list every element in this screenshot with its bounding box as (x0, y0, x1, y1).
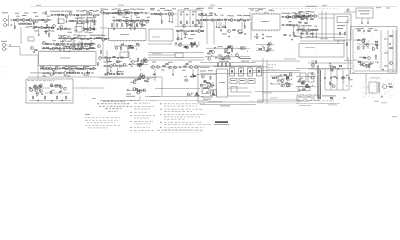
transistor Q109 (201, 75, 204, 78)
resistor R195 (51, 90, 52, 94)
value label (124, 8, 127, 11)
value label (77, 34, 80, 37)
value label (70, 40, 73, 43)
resistor R216 (272, 78, 274, 79)
value label (176, 38, 181, 41)
wire (86, 70, 88, 71)
resistor R79 (288, 16, 290, 17)
resistor R145 (77, 72, 79, 73)
resistor R149 (105, 57, 107, 58)
capacitor C61 (34, 51, 35, 53)
capacitor C41 (244, 33, 245, 35)
label (240, 57, 251, 60)
capacitor C81 (268, 48, 269, 50)
value label (141, 75, 145, 78)
capacitor C24 (136, 25, 137, 27)
transistor Q100 (140, 73, 143, 76)
resistor R5 (19, 23, 21, 24)
transistor Q86 (267, 44, 270, 47)
value label (35, 15, 38, 18)
transistor Q51 (42, 41, 45, 44)
value label (247, 14, 251, 17)
wire (100, 100, 140, 102)
label (370, 76, 380, 79)
transistor Q118 (332, 85, 335, 88)
transistor Q97 (133, 81, 136, 84)
diode CR5 (90, 37, 91, 38)
transistor Q38 (299, 15, 302, 18)
note line (164, 123, 194, 126)
resistor R160 (138, 58, 139, 62)
diode CR42 (306, 87, 307, 88)
wire (77, 16, 79, 21)
solder speck (201, 90, 204, 93)
resistor R92 (299, 22, 301, 23)
value label (308, 10, 311, 13)
transistor Q98 (139, 76, 142, 79)
value label (25, 26, 28, 29)
solder speck (39, 88, 40, 91)
capacitor C49 (306, 19, 307, 21)
value label (126, 95, 135, 98)
diode CR44 (335, 76, 336, 77)
resistor R185 (229, 63, 230, 67)
wire (8, 15, 10, 26)
transistor Q90 (35, 89, 38, 92)
capacitor C43 (262, 34, 263, 36)
resistor R109 (368, 63, 369, 67)
value label (57, 10, 60, 13)
transistor Q70 (287, 16, 290, 19)
solder speck (210, 82, 211, 85)
resistor R218 (286, 78, 288, 79)
solder speck (130, 60, 131, 63)
capacitor C100 (342, 77, 343, 79)
resistor R83 (293, 32, 294, 36)
resistor R175 (228, 55, 229, 59)
resistor R122 (92, 43, 94, 44)
title block line (97, 102, 130, 105)
note text line (268, 66, 273, 69)
net label (270, 96, 278, 99)
resistor R220 (287, 77, 289, 78)
capacitor C35 (216, 19, 217, 21)
transistor Q34 (228, 30, 231, 33)
resistor R1 (14, 20, 16, 21)
value label (305, 12, 309, 15)
wire (200, 21, 202, 26)
solder speck (57, 85, 58, 88)
value label (40, 65, 44, 68)
value label (240, 14, 242, 17)
value label (364, 43, 367, 46)
value label (153, 76, 157, 79)
wire (130, 22, 132, 28)
value label (61, 10, 64, 13)
solder speck (282, 80, 283, 83)
resistor R141 (58, 73, 60, 74)
transistor Q111 (281, 80, 284, 83)
value label (311, 11, 315, 14)
switch S3 (248, 68, 253, 76)
resistor R183 (221, 63, 222, 67)
value label (74, 65, 77, 68)
wire (174, 44, 200, 46)
resistor R192 (318, 65, 319, 69)
solder speck (35, 84, 38, 87)
transistor Q81 (190, 66, 193, 69)
caption OPTION (30, 71, 44, 74)
value label (206, 14, 210, 17)
caption (200, 66, 210, 69)
ground (90, 28, 92, 30)
value label (306, 35, 311, 38)
note line (164, 102, 205, 105)
resistor R184 (225, 63, 226, 67)
value label (359, 56, 363, 59)
solder speck (142, 88, 145, 91)
solder speck (375, 43, 377, 46)
transistor Q29 (183, 25, 186, 28)
wire (148, 57, 204, 59)
resistor R113 (369, 64, 370, 68)
resistor R179 (209, 51, 211, 52)
note number (130, 105, 132, 108)
wire (300, 31, 302, 37)
zone label (322, 4, 327, 7)
zone label (118, 4, 124, 7)
value label (86, 16, 90, 19)
ground (38, 34, 40, 36)
ref labels (208, 7, 213, 10)
ground (93, 29, 95, 31)
resistor R177 (227, 52, 229, 53)
wire (296, 86, 316, 88)
value label (53, 39, 56, 42)
resistor R171 (166, 64, 168, 65)
capacitor C63 (75, 68, 76, 70)
transistor Q87 (268, 42, 271, 45)
capacitor C53 (367, 43, 368, 45)
transistor Q30 (195, 24, 198, 27)
wire (297, 26, 299, 34)
switch S4 (257, 68, 262, 76)
transistor Q24 (133, 20, 136, 23)
ref label (15, 12, 19, 15)
diode CR43 (301, 83, 302, 84)
transistor Q73 (53, 25, 56, 28)
wire (330, 70, 332, 90)
resistor R55 (141, 23, 142, 27)
wire (248, 8, 266, 10)
note line (134, 102, 150, 105)
resistor R156 (121, 44, 123, 45)
transistor Q15 (67, 36, 70, 39)
transistor Q77 (152, 66, 155, 69)
wire (100, 12, 150, 14)
wire (395, 30, 397, 72)
diode CR26 (216, 57, 217, 58)
value label (29, 25, 33, 28)
value label (369, 62, 373, 65)
resistor R144 (73, 72, 75, 73)
wire (114, 45, 140, 47)
op-amp A6 (103, 12, 106, 15)
power supply enclosure (351, 27, 398, 74)
transistor Q60 (55, 67, 58, 70)
ground (312, 36, 314, 38)
wire (102, 46, 104, 60)
value label (127, 8, 130, 11)
wire (84, 28, 97, 30)
wire (34, 27, 54, 29)
transistor Q33 (132, 61, 135, 64)
resistor R225 (298, 81, 300, 82)
wire (53, 70, 55, 73)
op-amp A1 (47, 19, 50, 22)
transistor Q89 (311, 64, 314, 67)
rule line (197, 124, 211, 126)
wire (344, 11, 356, 13)
wire (270, 83, 293, 85)
solder speck (136, 88, 138, 91)
solder speck (146, 79, 149, 82)
resistor R125 (55, 48, 57, 49)
value label (89, 44, 93, 47)
footnote line (157, 129, 203, 132)
value label (374, 29, 378, 32)
value label (68, 65, 72, 68)
wire (171, 15, 173, 21)
note number (130, 99, 132, 102)
op-amp A3 (86, 20, 89, 23)
resistor R189 (339, 65, 341, 66)
value label (168, 9, 172, 12)
resistor R50 (117, 23, 118, 27)
op-amp A11 (311, 15, 314, 18)
resistor R98 (339, 32, 340, 36)
resistor R121 (88, 44, 90, 45)
resistor R66 (191, 31, 193, 32)
resistor R152 (136, 44, 138, 45)
wire (344, 62, 352, 64)
transistor Q32 (99, 57, 102, 60)
value label (16, 15, 19, 18)
tiny mark2 (330, 99, 334, 100)
capacitor C15 (94, 38, 95, 40)
resistor R8 (29, 23, 31, 24)
resistor R112 (375, 55, 376, 59)
wire (38, 29, 40, 34)
transistor Q74 (123, 63, 126, 66)
wire (102, 14, 104, 46)
wire (116, 67, 118, 71)
wire (250, 22, 252, 40)
capacitor C5 (73, 14, 74, 16)
wire (255, 91, 300, 93)
wire (313, 60, 315, 69)
solder speck (299, 88, 300, 91)
capacitor C79 (179, 66, 180, 68)
solder speck (246, 50, 249, 53)
resistor R37 (106, 13, 108, 14)
label U20 (219, 81, 225, 84)
label U1 (60, 57, 70, 60)
solder speck (187, 79, 189, 82)
ground (61, 43, 63, 45)
label POWER SUPPLY (355, 27, 364, 30)
IC U1 main delay processor (39, 52, 97, 66)
transistor Q52 (225, 49, 228, 52)
wire (343, 40, 345, 44)
diode CR39 (212, 85, 213, 86)
resistor R93 (305, 22, 307, 23)
value label (188, 60, 192, 63)
wire (308, 68, 345, 70)
note number (130, 126, 132, 129)
value label (329, 64, 333, 67)
wire (200, 73, 252, 75)
ground (172, 74, 174, 76)
diode CR3 (59, 38, 60, 39)
note number (160, 132, 162, 135)
value label (86, 65, 89, 68)
value label (285, 12, 289, 15)
capacitor C50 (306, 33, 307, 35)
capacitor C56 (54, 43, 55, 45)
wire (161, 15, 163, 21)
wire (20, 27, 22, 44)
scan speckle texture (1, 11, 397, 107)
notch U10 (264, 12, 268, 14)
diode CR18 (61, 43, 62, 44)
value label (106, 61, 110, 64)
solder speck (40, 90, 41, 93)
resistor R84 (284, 35, 286, 36)
value label (308, 24, 312, 27)
capacitor C83 (330, 63, 331, 65)
solder speck (306, 85, 308, 88)
wire (148, 52, 204, 54)
value label (58, 86, 61, 89)
resistor R151 (121, 57, 123, 58)
wire (128, 77, 156, 79)
resistor R163 (110, 73, 112, 74)
wire (281, 16, 310, 18)
resistor R197 (45, 96, 46, 100)
note line (134, 114, 155, 117)
ground (130, 28, 132, 30)
label (249, 79, 254, 82)
arrow J3 (9, 44, 11, 45)
wire (258, 99, 299, 101)
note line (164, 134, 195, 137)
capacitor C23 (148, 20, 149, 22)
solder speck (191, 41, 192, 44)
wire (177, 10, 179, 26)
value label (384, 38, 388, 41)
transistor Q91 (39, 84, 42, 87)
transistor Q34 (139, 64, 142, 67)
note number (160, 113, 161, 116)
resistor R111 (364, 57, 366, 58)
wire (342, 70, 344, 90)
solder speck (190, 93, 192, 96)
solder speck (183, 46, 184, 49)
transistor Q4 (32, 20, 35, 23)
value label (84, 31, 88, 34)
wire (50, 14, 100, 16)
value label (102, 34, 106, 37)
value label (83, 9, 87, 12)
note line (134, 105, 154, 108)
relay K2 (231, 87, 237, 93)
transistor Q62 (71, 68, 74, 71)
capacitor C78 (196, 46, 197, 48)
value label (34, 29, 38, 32)
wire (181, 32, 183, 38)
ground (228, 35, 230, 37)
value label (297, 35, 302, 38)
transistor Q62 (135, 12, 138, 15)
transistor Q64 (117, 60, 120, 63)
transistor Q9 (86, 12, 89, 15)
module A3 (120, 52, 129, 58)
resistor R130 (92, 48, 94, 49)
indicator DS2 (230, 79, 237, 84)
resistor R114 (358, 61, 360, 62)
diode CR1 (20, 19, 21, 20)
value label (281, 12, 284, 15)
capacitor C94 (301, 77, 302, 79)
capacitor C14 (69, 28, 70, 30)
value label (64, 34, 67, 37)
transistor Q49 (360, 63, 363, 66)
wire (107, 67, 109, 71)
ref label (386, 7, 390, 10)
resistor R26 (64, 38, 66, 39)
solder speck (363, 43, 366, 46)
dark blob (55, 85, 61, 86)
crystal Y1 (202, 88, 209, 94)
wire (113, 22, 115, 28)
value label (230, 14, 234, 17)
wire (300, 40, 345, 42)
wire (68, 20, 97, 22)
diode CR40 (204, 81, 205, 82)
wire (172, 69, 174, 75)
wire (20, 54, 38, 56)
transistor Q36 (295, 16, 298, 19)
note text line (388, 71, 396, 74)
capacitor C38 (235, 19, 236, 21)
transistor Q69 (141, 60, 144, 63)
value label (73, 40, 76, 43)
wire (177, 32, 179, 37)
resistor R209 (213, 91, 214, 95)
tiny mark (92, 98, 96, 99)
transistor Q84 (230, 46, 233, 49)
resistor R73 (237, 20, 239, 21)
ref label (184, 7, 189, 10)
resistor R153 (128, 45, 130, 46)
resistor R101 (358, 30, 360, 31)
wire (296, 15, 319, 17)
value label (203, 14, 207, 17)
solder speck (312, 71, 313, 74)
capacitor C97 (324, 77, 325, 79)
wire (145, 96, 160, 98)
